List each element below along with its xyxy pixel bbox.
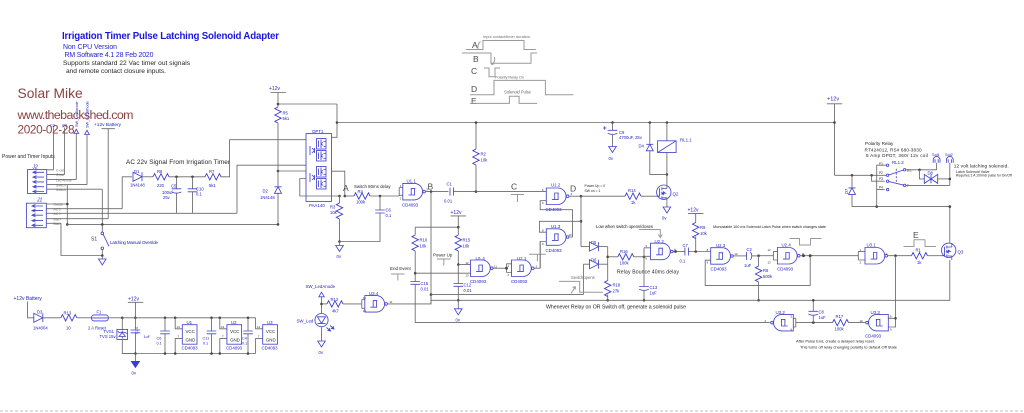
relay coil RL1.1 [658,121,693,174]
svg-text:CD4093: CD4093 [546,248,563,253]
diode D4 [639,121,667,174]
svg-text:10: 10 [735,252,739,256]
gate U2.3 [711,243,747,272]
svg-text:After Pulse End, create a dela: After Pulse End, create a delayed relay … [796,339,875,344]
gate U3.2 (mirrored) [415,310,796,331]
svg-text:D8: D8 [928,171,934,176]
node SW_LdCathode riser [85,101,90,184]
ic U3 power [256,318,279,354]
svg-text:R16: R16 [620,249,628,254]
svg-text:+12v: +12v [451,210,462,216]
diode D7 [844,175,856,206]
svg-text:0.01: 0.01 [421,287,430,292]
U1.3 feedback to U1.2 input [540,201,572,237]
svg-text:U2.4: U2.4 [782,243,792,248]
capacitor C10 [188,177,205,214]
optocoupler OPT1 [306,129,332,208]
battery stub [28,302,34,318]
gate U3.4 [362,291,389,312]
resistor R15 [455,227,471,264]
bottom page edge [0,410,1024,412]
resistor R4 [345,189,399,204]
U2.1 output riser to U1.3 input [539,242,541,269]
svg-text:E: E [471,96,477,106]
svg-text:CD4093: CD4093 [511,279,528,284]
svg-text:0.1: 0.1 [157,342,162,346]
diode D2 [260,171,282,224]
svg-text:10: 10 [66,326,71,331]
svg-text:R10: R10 [420,238,428,243]
battery- drop to gnd wire [61,223,102,255]
resistor R10 [412,227,428,281]
svg-text:Irrigation Timer Pulse Latchin: Irrigation Timer Pulse Latching Solenoid… [62,31,279,42]
svg-text:13: 13 [363,309,367,313]
svg-text:+12v Battery: +12v Battery [14,296,43,302]
svg-text:11: 11 [390,300,393,304]
connector J2 [28,165,103,194]
svg-text:Q3: Q3 [958,250,964,255]
svg-text:Polarity Relay: Polarity Relay [865,141,894,146]
svg-text:C: C [471,66,477,76]
svg-text:End Event: End Event [390,266,412,271]
svg-text:CD4093: CD4093 [262,346,279,351]
capacitor C15 [410,281,429,323]
svg-text:+12v: +12v [269,86,280,92]
svg-text:10k: 10k [420,244,428,249]
svg-text:C7: C7 [683,243,689,248]
latch cross wire upper [539,221,581,232]
node B vertical [430,192,432,304]
ground below S1 [101,256,103,260]
node C1 riser [50,123,56,170]
svg-text:0.1: 0.1 [680,259,686,264]
svg-text:AC 1: AC 1 [54,212,61,216]
svg-text:CD4093: CD4093 [402,203,419,208]
svg-text:0.1: 0.1 [386,213,392,218]
opto pull-up vertical [332,104,338,137]
node C2 riser [62,123,68,175]
relay common bus to Q3 [852,206,950,208]
ground below R3 [339,242,341,246]
AC return riser to OPT1 pin2 [237,165,306,213]
svg-text:11: 11 [802,252,805,256]
AC2 riser to chain [122,177,132,209]
capacitor C13 [639,285,658,300]
ic U1 power [174,317,198,355]
Q2 source to ground [666,201,668,207]
svg-text:RT424012, RS# 680-3830: RT424012, RS# 680-3830 [865,147,922,152]
svg-text:SW_LdCathode: SW_LdCathode [86,101,90,128]
svg-text:CD4093: CD4093 [470,279,487,284]
svg-text:10k: 10k [330,210,338,215]
svg-text:D4: D4 [639,144,645,149]
node SW_LedAnode [306,284,336,314]
svg-text:0.1: 0.1 [242,342,247,346]
gate U3.3 (mirrored) [849,310,889,339]
svg-text:1N4148: 1N4148 [130,183,145,188]
gate U1.3 [546,224,569,253]
svg-text:1uF: 1uF [744,263,752,268]
svg-text:Solenoid Pulse: Solenoid Pulse [504,90,532,95]
svg-text:C4: C4 [242,337,247,341]
U3.4 output wire [389,295,432,304]
svg-text:Batt-: Batt- [54,222,61,226]
svg-text:U1: U1 [187,320,193,325]
svg-text:D: D [471,84,477,94]
resistor R3 [330,196,343,242]
capacitor C7 [680,243,711,264]
U1.3 lower input from switch bus [540,242,546,269]
svg-text:C2: C2 [62,123,68,128]
svg-text:C1: C1 [447,182,453,187]
svg-text:R14: R14 [628,188,636,193]
svg-text:27k: 27k [613,289,621,294]
solenoid connector Sol2 [945,152,953,185]
svg-text:C5: C5 [171,184,177,189]
diode D6 [583,258,607,269]
resistor R7 [205,169,221,188]
OPT1 lower-left pin loop [300,179,340,197]
gate pin numbers [363,184,892,332]
svg-text:13: 13 [466,274,470,278]
svg-text:Low when switch opens/closes: Low when switch opens/closes [596,224,654,229]
waveform B [462,53,537,63]
svg-text:C2: C2 [747,247,753,252]
svg-text:AC 22v Signal From Irrigation: AC 22v Signal From Irrigation Timer [126,159,231,166]
capacitor C11 bypass [203,317,217,355]
gate U3.1 [858,243,911,264]
svg-text:4k7: 4k7 [332,309,339,314]
+12v supply above R9 [688,208,704,223]
svg-text:12 volt latching solenoid.: 12 volt latching solenoid. [954,164,1009,170]
gray pulse above U2.4 [790,239,822,246]
svg-text:Non CPU Version: Non CPU Version [63,44,117,51]
diode D3 [33,310,61,331]
svg-text:R15: R15 [463,238,471,243]
svg-text:P1: P1 [879,162,883,166]
svg-text:+12v: +12v [827,97,839,103]
wire +12v to opt pull vertical [278,103,337,105]
+12v rail symbol bottom [128,297,143,320]
switch bus riser to D6 [582,264,584,294]
svg-text:Power Up: Power Up [433,253,453,258]
resistor R6 [153,169,205,188]
capacitor C6 bypass [157,317,170,355]
svg-text:0.01: 0.01 [464,288,473,293]
svg-text:1uF: 1uF [144,335,151,339]
svg-text:10k: 10k [463,244,471,249]
svg-text:0.1: 0.1 [203,342,208,346]
+12v supply above R10/R15 [451,210,467,227]
capacitor C6a at node A [340,196,392,242]
svg-text:14: 14 [257,325,261,329]
svg-text:P2: P2 [879,171,883,175]
waveform A [466,41,536,50]
mosfet Q3 [942,243,964,260]
relay RL1.2 contacts [879,160,912,191]
svg-text:Power and Timer Inputs: Power and Timer Inputs [2,154,55,160]
svg-text:C-out: C-out [56,169,64,173]
R15 wire to U1.4 top input [458,264,470,266]
U2.2 input tie [644,248,651,287]
svg-text:11: 11 [494,264,497,268]
Q3 drain riser [949,207,951,244]
OPT1 output to node A [332,171,345,196]
Q3 source drop to ground bus [431,260,950,300]
ic U2 power [219,317,243,355]
gate U1.4 [470,256,507,284]
capacitor C5 (electrolytic) [162,177,181,214]
J2 switch2 drop [101,189,103,232]
svg-text:U2.3: U2.3 [716,243,726,248]
svg-text:U2: U2 [231,320,237,325]
wire R5 node to OPT1 pin3 [278,170,306,172]
switch wire to S1 and D2 [67,223,278,225]
svg-text:C-out: C-out [56,173,64,177]
ground below C9 [609,147,617,153]
timing diagram labels A-E [471,34,532,106]
svg-text:Switch: Switch [56,188,66,192]
svg-text:D2: D2 [263,189,269,194]
capacitor C8 [809,300,827,322]
resistor R9 [693,223,708,252]
gate U2.2 [651,239,685,260]
svg-text:SW_Led: SW_Led [297,319,314,324]
fuse F1 [88,310,122,331]
svg-text:C6: C6 [386,208,392,213]
+12v battery riser [94,122,122,219]
wire D to R14 [581,195,625,197]
svg-text:Led Anode: Led Anode [56,178,72,182]
svg-text:1N4148: 1N4148 [260,195,275,200]
svg-text:8 Amp DPDT, 360r 12v coil: 8 Amp DPDT, 360r 12v coil [866,153,928,158]
svg-text:RM Software 4.1 28 Feb 2020: RM Software 4.1 28 Feb 2020 [65,52,154,59]
node dots C5/C10 taps [175,176,178,179]
svg-text:R17: R17 [836,314,844,319]
svg-text:12: 12 [466,261,470,265]
wire C2 to U2.4 [759,255,774,257]
svg-text:+12v: +12v [128,297,139,303]
svg-text:R8: R8 [763,268,769,273]
svg-text:1uF: 1uF [819,315,827,320]
resistor R2 [473,123,488,192]
svg-text:Whenever Relay on OR Switch of: Whenever Relay on OR Switch off, generat… [546,305,686,311]
throw wires to solenoid [906,170,950,186]
gate U1.2 [546,183,582,212]
diode D5 [581,240,608,251]
svg-text:SW_LedAnode: SW_LedAnode [306,284,336,289]
svg-text:F1: F1 [97,310,103,315]
edge annotation arcs [478,42,495,65]
svg-text:220: 220 [157,183,165,188]
svg-text:SW_LedAnode: SW_LedAnode [75,101,79,127]
waveform C [484,68,500,77]
svg-text:U3: U3 [267,320,273,325]
svg-text:R1: R1 [916,248,922,253]
waveform E [470,96,537,103]
svg-text:R13: R13 [64,311,72,316]
resistor R14 [625,188,657,205]
svg-text:S1: S1 [91,237,97,243]
svg-text:100k: 100k [620,261,630,266]
svg-text:CD4093: CD4093 [777,267,794,272]
svg-text:SW on = 1: SW on = 1 [585,189,601,193]
solenoid connector Sol1 [932,152,940,170]
svg-text:Polarity Relay On: Polarity Relay On [495,75,524,80]
svg-text:CD4093: CD4093 [226,346,243,351]
svg-text:Q2: Q2 [673,192,679,197]
U3.1 input riser to U3.3 [888,256,895,327]
gray step under power up [437,259,451,266]
svg-text:C: C [511,182,517,192]
capacitor C12 [454,265,473,301]
power top bus [122,317,255,319]
svg-text:D1,: D1, [907,168,912,172]
diode pair D8 [920,170,950,184]
svg-text:This turns off relay changing: This turns off relay changing polarity t… [800,345,898,350]
capacitor C2 [744,247,759,268]
svg-text:C14: C14 [135,327,139,334]
svg-text:P: P [907,184,909,188]
gray leader to U2.2 [639,230,662,238]
led SW_Led [297,314,335,342]
+12v rail top [337,122,835,124]
svg-text:13: 13 [768,260,772,264]
wire B to U1.2 [476,191,546,193]
node SW_LedAnode riser [74,101,79,179]
svg-text:C6: C6 [157,337,162,341]
svg-text:Requires 2 A 100mS pulse for O: Requires 2 A 100mS pulse for On/Off [956,174,1012,178]
svg-text:R18: R18 [613,283,621,288]
svg-text:R6: R6 [157,169,163,174]
gray step switchopens [559,281,603,293]
wire +12v to relay common [835,174,887,176]
ground below led [318,341,326,347]
svg-text:U3.1: U3.1 [867,243,877,248]
svg-text:Relay Bounce 40ms delay: Relay Bounce 40ms delay [617,270,679,276]
U2.3 lower input feedback [705,256,810,286]
svg-text:0.01: 0.01 [444,199,453,204]
gate U2.4 [773,243,858,272]
svg-text:25v: 25v [163,195,171,200]
svg-text:and remote contact closure inp: and remote contact closure inputs. [66,68,166,75]
svg-text:Switch: Switch [56,183,66,187]
gate U2.1 [505,256,540,284]
svg-text:CD4093: CD4093 [182,346,199,351]
+12v supply at R5 [269,86,286,107]
resistor R5 [275,107,290,171]
svg-text:Latching Manual Override: Latching Manual Override [110,240,158,245]
power ground bus [122,353,255,355]
diode D1 [130,169,153,188]
svg-text:B: B [473,54,479,64]
svg-text:+12v Battery: +12v Battery [94,122,122,128]
svg-text:14: 14 [221,325,225,329]
svg-text:12: 12 [363,296,367,300]
svg-text:C13: C13 [650,285,658,290]
svg-text:RL1.2: RL1.2 [892,160,904,165]
svg-text:U1.1: U1.1 [407,179,417,184]
svg-text:5k1: 5k1 [283,116,290,121]
svg-text:14: 14 [177,325,181,329]
svg-text:10: 10 [569,233,573,237]
capacitor C1 [444,182,476,204]
svg-text:4700uF, 25v: 4700uF, 25v [619,135,643,140]
svg-text:Batt+: Batt+ [54,217,62,221]
svg-text:1N4004: 1N4004 [33,326,48,331]
svg-text:C1: C1 [50,123,56,128]
svg-text:E: E [913,230,919,240]
mosfet Q2 [657,185,679,202]
svg-text:1uF: 1uF [650,291,658,296]
svg-text:10k: 10k [700,231,708,236]
svg-text:R7: R7 [209,169,215,174]
svg-text:P3: P3 [879,177,883,181]
resistor R13 [61,311,92,331]
svg-text:10k: 10k [481,158,489,163]
ground mid [457,300,459,309]
svg-text:B: B [428,182,434,192]
svg-text:D7: D7 [844,188,849,194]
author block [17,86,134,137]
svg-text:Power Up = 0: Power Up = 0 [585,184,606,188]
gray pulse at E [904,240,937,247]
svg-text:Input contact/timer duration: Input contact/timer duration [483,34,530,39]
wire R7 to OPT1 pin1 [221,140,306,177]
resistor R16 [608,249,644,266]
capacitor C9 [603,121,643,146]
capacitor C14 [131,318,151,354]
gray step under C [511,195,524,203]
svg-text:Monostable 100 ms Solenoid Lat: Monostable 100 ms Solenoid Latch Pulse w… [713,224,826,229]
title block [62,31,279,75]
svg-text:R3: R3 [330,205,336,210]
capacitor C4 bypass [242,317,253,355]
svg-text:R2: R2 [481,152,487,157]
svg-text:TVS 15v: TVS 15v [100,334,117,339]
svg-text:0.1: 0.1 [196,192,202,197]
ground power [134,354,136,362]
gray step under end event [391,274,405,281]
svg-text:U1.2: U1.2 [551,183,561,188]
gray step above U2.1 [529,254,546,261]
connector J1 [26,198,237,228]
svg-text:100k: 100k [835,327,845,332]
D5/D6 merge vertical [607,247,609,281]
svg-text:P4: P4 [879,185,883,189]
switch bus wire [431,294,583,296]
svg-text:A: A [343,183,349,193]
svg-text:C8: C8 [819,310,825,315]
resistor R12 [322,297,362,314]
Q2 drain riser [666,174,668,184]
svg-text:+12v: +12v [688,208,699,214]
svg-text:D3: D3 [37,310,43,315]
svg-text:100k: 100k [356,200,366,205]
relay pole links [872,165,887,206]
resistor R8 [755,256,773,301]
svg-text:PAA140: PAA140 [309,203,325,208]
svg-text:Switchopens: Switchopens [571,275,595,280]
svg-text:CD4093: CD4093 [711,267,728,272]
waveform D [470,80,573,94]
svg-text:Solar Mike: Solar Mike [18,86,83,101]
tvs TVS1 [100,318,136,354]
resistor R18 [605,281,621,301]
+12v supply right [827,97,842,176]
svg-text:500k: 500k [763,274,773,279]
svg-text:Supports standard 22 Vac timer: Supports standard 22 Vac timer out signa… [63,60,191,67]
